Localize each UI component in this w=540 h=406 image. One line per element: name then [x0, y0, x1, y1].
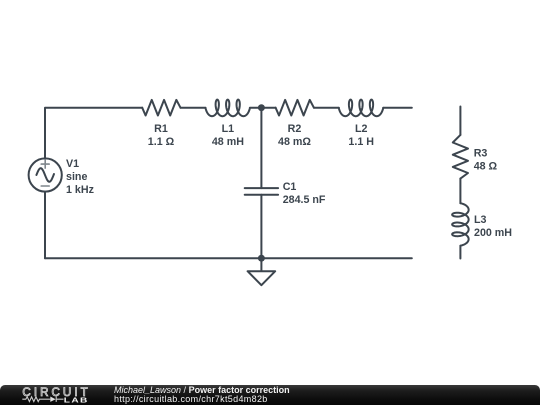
- svg-text:sine: sine: [66, 171, 87, 183]
- resistor R2: [276, 100, 314, 116]
- svg-text:L1: L1: [222, 123, 235, 135]
- wire L2 right stub: [383, 107, 412, 109]
- svg-text:1.1 Ω: 1.1 Ω: [148, 136, 175, 148]
- voltage source V1: [29, 158, 62, 191]
- wire node to C1 top plate: [260, 108, 262, 188]
- svg-text:200 mH: 200 mH: [474, 227, 512, 239]
- resistor R1: [142, 100, 180, 116]
- svg-text:48 Ω: 48 Ω: [474, 160, 498, 172]
- wire C1 bottom plate to bottom rail: [260, 195, 262, 259]
- svg-text:V1: V1: [66, 158, 79, 170]
- wire L1 to R2 through node: [250, 107, 276, 109]
- node junction bottom rail at ground: [258, 255, 265, 262]
- inductor L3: [452, 203, 469, 246]
- wire R2 to L2: [314, 107, 339, 109]
- svg-text:1 kHz: 1 kHz: [66, 184, 94, 196]
- svg-text:R3: R3: [474, 147, 488, 159]
- svg-text:48 mH: 48 mH: [212, 136, 244, 148]
- wire top rail left: V1 top to R1: [45, 108, 142, 159]
- svg-text:1.1 H: 1.1 H: [348, 136, 374, 148]
- CircuitLab logo: [0, 385, 110, 406]
- svg-text:R2: R2: [288, 123, 302, 135]
- inductor L1: [206, 100, 250, 117]
- svg-text:284.5 nF: 284.5 nF: [283, 194, 326, 206]
- svg-text:L2: L2: [355, 123, 368, 135]
- credit text: [114, 386, 290, 405]
- svg-text:48 mΩ: 48 mΩ: [278, 136, 311, 148]
- footer black bar: [0, 385, 540, 406]
- wire L3 bottom stub: [459, 246, 461, 259]
- resistor R3: [453, 135, 468, 179]
- wire R3 branch top stub: [459, 107, 461, 135]
- inductor L2: [339, 100, 383, 117]
- wire R3 to L3: [459, 179, 461, 204]
- capacitor C1: [245, 188, 278, 195]
- svg-text:C1: C1: [283, 181, 297, 193]
- node junction top of C1: [258, 104, 265, 111]
- wire R1 to L1: [181, 107, 206, 109]
- ground: [248, 258, 276, 285]
- svg-text:L3: L3: [474, 214, 487, 226]
- wire bottom rail: [45, 257, 412, 259]
- svg-text:LAB: LAB: [64, 395, 89, 403]
- svg-text:R1: R1: [154, 123, 168, 135]
- wire V1 bottom to bottom rail: [44, 192, 46, 259]
